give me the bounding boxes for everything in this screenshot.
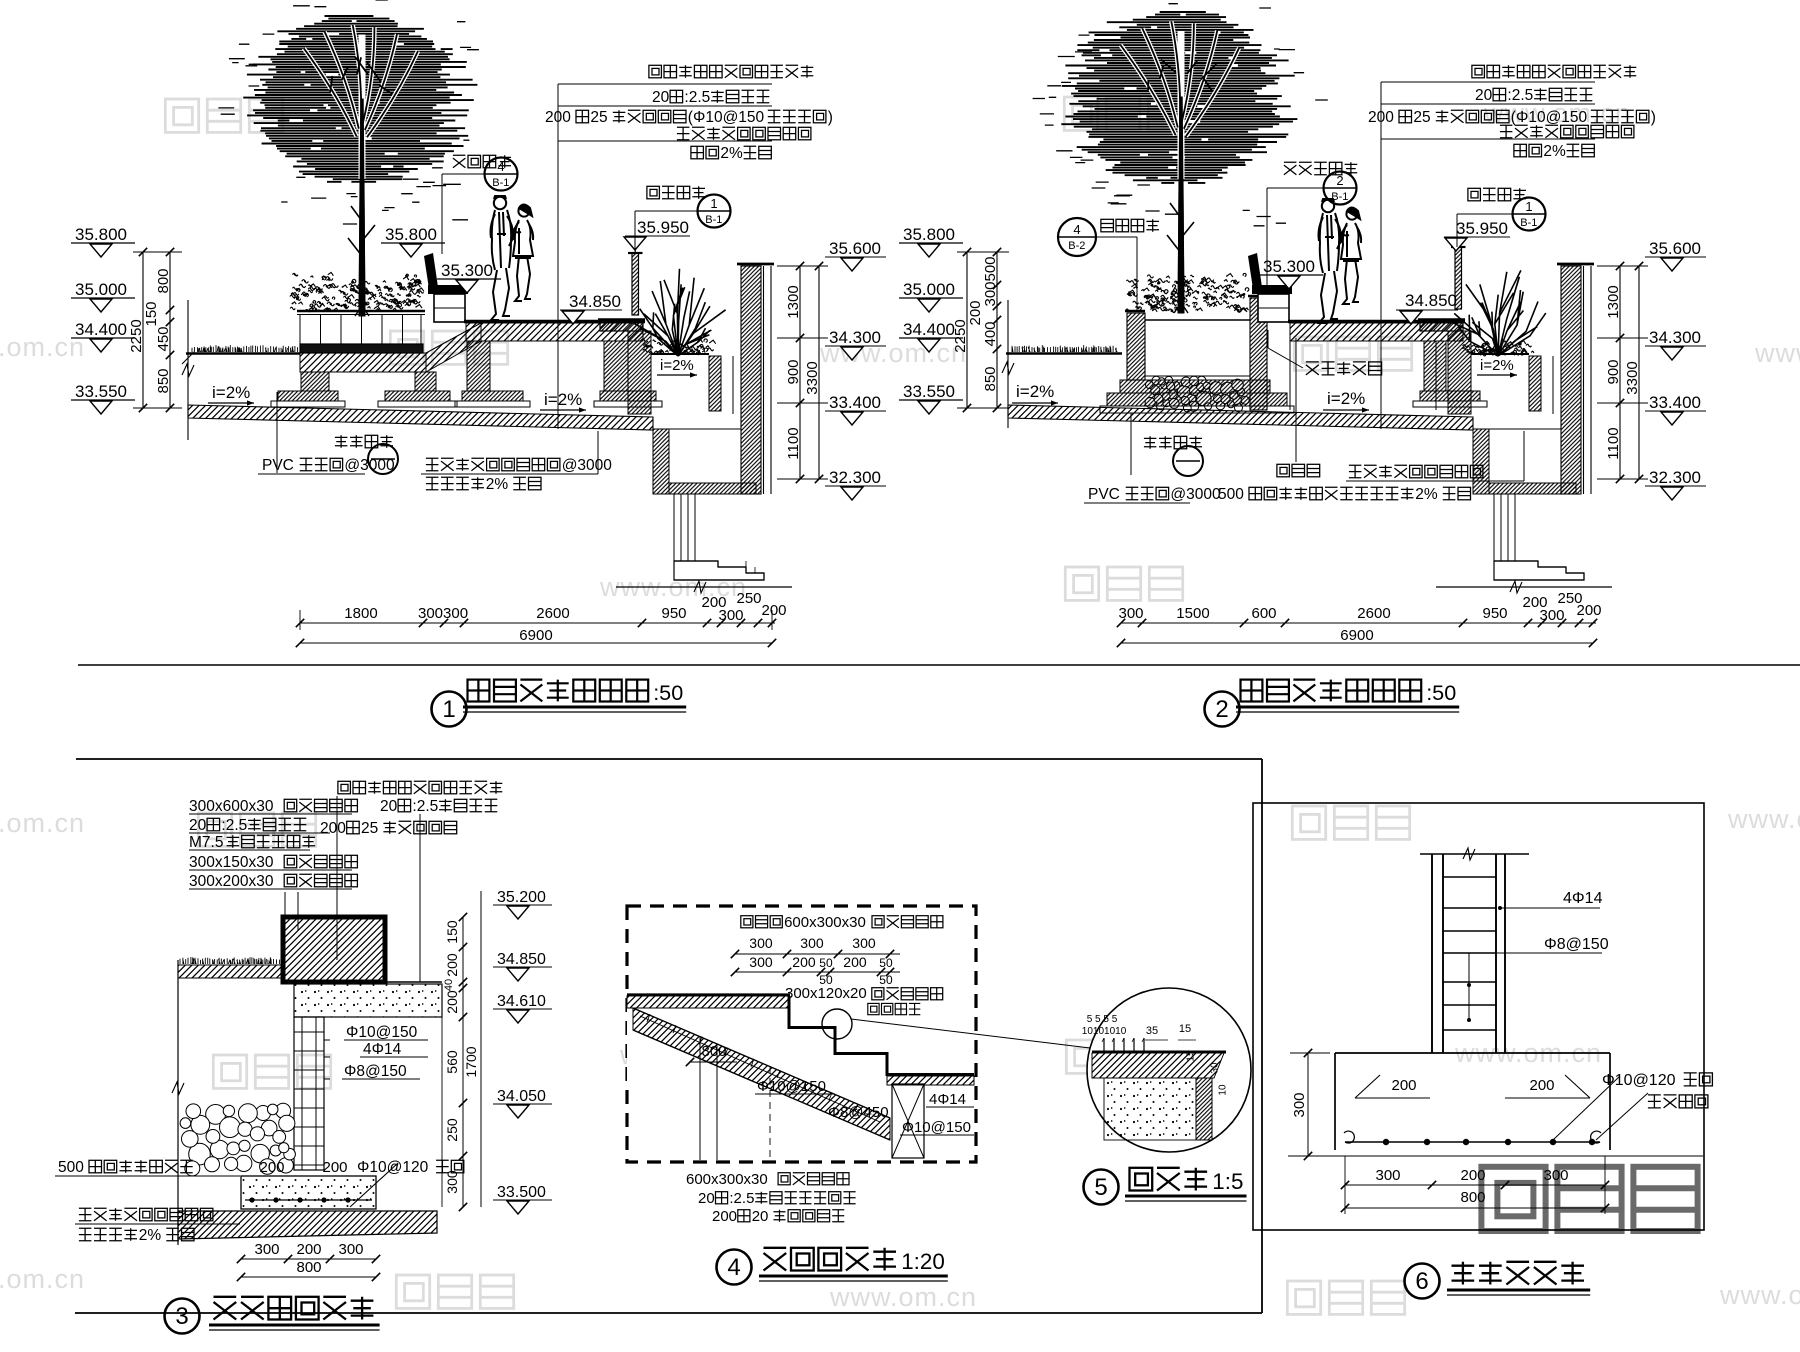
svg-text:1300: 1300: [785, 285, 802, 318]
lower steps: [674, 561, 764, 580]
bottom structural slab: [188, 405, 653, 430]
footing C: [462, 391, 523, 401]
svg-text:Φ10@150: Φ10@150: [757, 1078, 826, 1095]
planting soil label: [1277, 464, 1290, 477]
drainage cavity walls: [1289, 341, 1291, 410]
svg-text:20: 20: [189, 817, 207, 834]
svg-text:850: 850: [155, 368, 172, 393]
tree pit walls: [1125, 310, 1145, 312]
annotation text top v2: [1472, 65, 1485, 78]
drainage label: [1306, 362, 1319, 375]
dim 300 vertical: [1307, 1053, 1309, 1156]
footing A: [278, 391, 338, 401]
left ground boundary line: [187, 300, 189, 440]
detail 3 labels block: [338, 781, 351, 794]
svg-text:35.800: 35.800: [903, 225, 955, 244]
gravel drainage layer: [189, 1143, 211, 1165]
svg-text:34.300: 34.300: [829, 328, 881, 347]
detail 5 big circle: [1087, 988, 1251, 1152]
svg-text:25: 25: [361, 820, 378, 837]
right planter inner wall: [709, 356, 721, 411]
railing detail bubble: [647, 186, 660, 199]
svg-text:i=2%: i=2%: [544, 390, 582, 409]
svg-text:200: 200: [444, 990, 460, 1014]
svg-text:450: 450: [155, 326, 172, 351]
tree pit shrubs: [1126, 273, 1249, 312]
vertical dimension chain left: [142, 252, 144, 408]
svg-text:34.050: 34.050: [497, 1088, 546, 1105]
svg-text:500: 500: [1218, 486, 1244, 503]
people couple v2: [1319, 199, 1362, 323]
support wall B: [415, 372, 436, 391]
svg-text:4: 4: [1073, 222, 1080, 237]
tree pit foundation: [1120, 380, 1270, 393]
svg-text:www.om.cn: www.om.cn: [0, 808, 85, 838]
right dimension chain: [799, 266, 801, 479]
svg-text:1500: 1500: [1176, 605, 1209, 622]
svg-text:www.om.cn: www.om.cn: [829, 1282, 977, 1312]
bottom structural slab v2: [1008, 405, 1473, 430]
detail 3 title: [165, 1299, 200, 1334]
footing B: [385, 391, 450, 401]
light watermarks: [165, 99, 198, 132]
svg-text:2: 2: [1215, 696, 1228, 723]
pedestal v2: [1493, 494, 1495, 561]
svg-text:5: 5: [1094, 1174, 1107, 1201]
svg-text:200: 200: [792, 954, 816, 970]
svg-text:34.400: 34.400: [903, 320, 955, 339]
annotation text top: [649, 65, 662, 78]
svg-text:2%: 2%: [720, 145, 743, 162]
svg-text:4: 4: [497, 159, 504, 174]
svg-text:34.850: 34.850: [497, 951, 546, 968]
ground line detail6: [1288, 1155, 1703, 1157]
svg-text:50: 50: [879, 973, 893, 987]
svg-text:Φ10@120: Φ10@120: [1602, 1072, 1676, 1089]
svg-text:800: 800: [155, 268, 172, 293]
deck slab v2: [1288, 320, 1465, 323]
svg-text:35.300: 35.300: [441, 261, 493, 280]
detail 6 title: [1405, 1264, 1440, 1299]
railing post: [628, 247, 643, 315]
bottom dimension chain view1: [300, 622, 775, 624]
svg-text:3300: 3300: [804, 361, 821, 394]
foundation detail bubble: [335, 435, 348, 448]
svg-text:300: 300: [749, 954, 773, 970]
stair stringer slab: [633, 1008, 890, 1140]
svg-text:): ): [828, 109, 833, 126]
svg-text:35.950: 35.950: [637, 218, 689, 237]
grass strip v2: [1012, 345, 1117, 352]
column with X brace: [892, 1084, 924, 1158]
svg-text:): ): [1651, 109, 1656, 126]
details enclosure box: [76, 758, 1262, 760]
svg-text:@3000: @3000: [562, 457, 613, 474]
concrete slab under bench: [294, 984, 442, 1017]
svg-text:300: 300: [255, 1241, 280, 1258]
svg-text:34.400: 34.400: [75, 320, 127, 339]
stringer rebar: [640, 1016, 880, 1122]
svg-text:300: 300: [719, 607, 744, 624]
tree pit detail bubble: [1058, 218, 1096, 256]
svg-text:200: 200: [762, 602, 787, 619]
svg-text:35.000: 35.000: [903, 280, 955, 299]
ground line below: [616, 586, 792, 588]
lower box v2: [1473, 429, 1489, 494]
lower box wall: [653, 429, 669, 494]
svg-text:950: 950: [662, 605, 687, 622]
svg-text:300x150x30: 300x150x30: [189, 854, 274, 871]
svg-text:33.500: 33.500: [497, 1184, 546, 1201]
large dark watermark: [1481, 1167, 1545, 1231]
svg-text:300: 300: [1119, 605, 1144, 622]
svg-text:2%: 2%: [1415, 486, 1438, 503]
svg-text:560: 560: [444, 1050, 460, 1074]
left soil strip: [178, 965, 283, 978]
svg-text:20: 20: [698, 1190, 715, 1207]
material annotation leader: [557, 84, 559, 429]
svg-text:(Φ10@150: (Φ10@150: [1511, 109, 1588, 126]
detail5 concrete below: [1104, 1078, 1196, 1140]
svg-text:25: 25: [1413, 109, 1430, 126]
svg-text:Φ10@150: Φ10@150: [902, 1119, 971, 1136]
svg-text:800: 800: [1461, 1189, 1486, 1206]
svg-text:300x600x30: 300x600x30: [189, 798, 274, 815]
svg-text:300300: 300300: [418, 605, 468, 622]
detail 4 dashed box: [627, 906, 976, 1162]
annotation leader v2: [1380, 82, 1382, 429]
svg-text:2600: 2600: [536, 605, 569, 622]
people couple: [491, 196, 534, 320]
svg-text:1100: 1100: [1605, 427, 1622, 459]
right planter curb: [600, 320, 643, 331]
svg-text:300: 300: [339, 1241, 364, 1258]
svg-text:200: 200: [260, 1159, 285, 1176]
svg-text:1100: 1100: [785, 427, 802, 459]
svg-text:10101010: 10101010: [1082, 1026, 1127, 1037]
steps profile: [627, 993, 790, 996]
svg-text:200: 200: [297, 1241, 322, 1258]
svg-text:www.om.cn: www.om.cn: [1719, 1280, 1800, 1310]
support wall D: [604, 341, 628, 391]
footing D: [600, 391, 656, 401]
svg-text:1300: 1300: [1605, 285, 1622, 318]
wall ladder reinforcement: [294, 1017, 324, 1170]
svg-text:300: 300: [1544, 1167, 1569, 1184]
svg-text:6900: 6900: [1340, 627, 1373, 644]
svg-text:300: 300: [982, 281, 999, 306]
steps detail bubble: [453, 155, 466, 168]
svg-text::2.5: :2.5: [1507, 87, 1533, 104]
bench detail bubble v2: [1284, 162, 1297, 175]
svg-text:32.300: 32.300: [829, 468, 881, 487]
svg-text:20: 20: [652, 89, 670, 106]
right retaining wall v2: [1561, 266, 1581, 494]
cavity boundary: [324, 1099, 442, 1101]
detail5 tick marks: [1103, 1038, 1105, 1052]
footing outline: [1335, 1052, 1610, 1054]
svg-text:4: 4: [727, 1254, 740, 1281]
svg-text:www.om.cn: www.om.cn: [0, 332, 85, 362]
svg-text:i=2%: i=2%: [660, 357, 694, 374]
svg-text:B-2: B-2: [1068, 240, 1085, 252]
svg-text:6900: 6900: [519, 627, 552, 644]
svg-text:33.400: 33.400: [829, 393, 881, 412]
detail5 slab band: [1092, 1051, 1226, 1054]
svg-text:15: 15: [1186, 1050, 1197, 1062]
svg-text:35.600: 35.600: [829, 239, 881, 258]
separator line: [78, 664, 1800, 666]
svg-text:www.om.cn: www.om.cn: [1727, 804, 1800, 834]
planter box with tiles: [297, 310, 425, 312]
svg-text:i=2%: i=2%: [1016, 382, 1054, 401]
svg-text:i=2%: i=2%: [1480, 357, 1514, 374]
svg-text:200: 200: [545, 109, 571, 126]
right planter soil and plant v2: [1471, 353, 1529, 355]
svg-text:35.600: 35.600: [1649, 239, 1701, 258]
support wall A: [301, 372, 329, 391]
svg-text:Φ8@450: Φ8@450: [828, 1104, 889, 1121]
svg-text:20: 20: [752, 1208, 769, 1225]
svg-text:10: 10: [1218, 1084, 1229, 1096]
svg-text:200: 200: [320, 820, 346, 837]
svg-text:1: 1: [710, 196, 717, 211]
svg-text::2.5: :2.5: [221, 817, 247, 834]
svg-text:800: 800: [297, 1259, 322, 1276]
svg-text:400: 400: [982, 321, 999, 346]
svg-text:@3000: @3000: [344, 457, 395, 474]
svg-text:950: 950: [1483, 605, 1508, 622]
svg-text:200: 200: [323, 1159, 348, 1176]
footing detail3: [241, 1176, 376, 1209]
svg-text::50: :50: [1426, 680, 1456, 705]
svg-text:PVC: PVC: [1088, 486, 1120, 503]
bench block detail: [283, 917, 385, 982]
support wall C: [467, 341, 490, 391]
svg-text:300: 300: [800, 935, 824, 951]
detail4 dim rows: [735, 953, 900, 955]
railing detail bubble v2: [1468, 188, 1481, 201]
right elevation chain detail3: [462, 917, 464, 1207]
svg-text:i=2%: i=2%: [1327, 389, 1365, 408]
grass strip left: [192, 345, 298, 352]
support walls under steps: [699, 1037, 701, 1160]
svg-text:33.550: 33.550: [75, 382, 127, 401]
svg-text:200: 200: [1368, 109, 1394, 126]
foundation detail bubble v2: [1144, 436, 1157, 449]
svg-text:35.300: 35.300: [1263, 257, 1315, 276]
svg-text:Φ10@150: Φ10@150: [346, 1024, 418, 1041]
svg-text:B-1: B-1: [705, 214, 722, 226]
svg-text:Φ8@150: Φ8@150: [1544, 936, 1609, 953]
svg-text:200: 200: [843, 954, 867, 970]
right planter soil and plant: [651, 353, 709, 355]
lower box floor: [669, 483, 756, 494]
svg-text:3300: 3300: [1624, 361, 1641, 394]
detail5 wall strip: [1196, 1078, 1212, 1140]
svg-text:www.om.cn: www.om.cn: [0, 1264, 85, 1294]
deck slab: [464, 320, 645, 323]
footing chamfer marks: [1355, 1075, 1430, 1098]
svg-text:200: 200: [1577, 602, 1602, 619]
svg-text:20: 20: [1475, 87, 1493, 104]
svg-text:800: 800: [702, 1043, 727, 1060]
svg-text:(Φ10@150: (Φ10@150: [688, 109, 765, 126]
detail 5 title: [1084, 1170, 1119, 1205]
svg-text:250: 250: [737, 590, 762, 607]
railing post v2: [1451, 241, 1466, 309]
svg-text:33.550: 33.550: [903, 382, 955, 401]
svg-text::2.5: :2.5: [729, 1190, 754, 1207]
svg-text:300: 300: [444, 1170, 460, 1194]
detail 4 title: [717, 1250, 752, 1285]
svg-text:34.610: 34.610: [497, 993, 546, 1010]
tree pit gravel: [1177, 386, 1190, 399]
svg-text:2%: 2%: [486, 476, 509, 493]
lower steps v2: [1494, 561, 1584, 580]
svg-text:15: 15: [1179, 1023, 1191, 1035]
svg-text:35: 35: [1146, 1025, 1158, 1037]
bottom slab detail3: [178, 1211, 437, 1239]
bottom dimension chain view2: [1121, 622, 1596, 624]
svg-text:250: 250: [444, 1118, 460, 1142]
svg-text:3: 3: [175, 1303, 188, 1330]
svg-text:40: 40: [443, 979, 455, 991]
detail 6 box: [1253, 803, 1704, 1230]
svg-text:200: 200: [1530, 1077, 1555, 1094]
bench seat 2: [1248, 253, 1292, 322]
svg-text:200: 200: [444, 953, 460, 977]
bench seat 1: [424, 253, 468, 322]
detail4 top label: [741, 916, 753, 928]
right retaining wall: [741, 266, 761, 494]
svg-text:35.800: 35.800: [385, 225, 437, 244]
svg-text:200: 200: [1461, 1167, 1486, 1184]
svg-text:500: 500: [58, 1159, 84, 1176]
svg-text:34.850: 34.850: [569, 292, 621, 311]
svg-text:300: 300: [1376, 1167, 1401, 1184]
svg-text:900: 900: [785, 359, 802, 384]
svg-text:1: 1: [1525, 199, 1532, 214]
svg-text:50: 50: [819, 956, 833, 970]
svg-text:www.om.cn: www.om.cn: [1754, 338, 1800, 368]
svg-text::2.5: :2.5: [684, 89, 710, 106]
right dimension chain v2: [1619, 266, 1621, 479]
svg-text:35.200: 35.200: [497, 889, 546, 906]
svg-text:20: 20: [380, 798, 398, 815]
svg-text:4Φ14: 4Φ14: [363, 1041, 402, 1058]
svg-text:300: 300: [1291, 1092, 1308, 1117]
vertical dimension chain left: [966, 252, 968, 408]
left ground boundary line v2: [1007, 300, 1009, 428]
svg-text:600: 600: [1252, 605, 1277, 622]
svg-text:35.950: 35.950: [1456, 219, 1508, 238]
svg-text:200: 200: [712, 1208, 737, 1225]
svg-text::2.5: :2.5: [412, 798, 438, 815]
right planter wall left: [628, 331, 651, 414]
svg-text:34.850: 34.850: [1405, 291, 1457, 310]
svg-text:M7.5: M7.5: [189, 834, 223, 851]
svg-text:1: 1: [442, 696, 455, 723]
view 1 title: [432, 692, 467, 727]
svg-text:50: 50: [879, 956, 893, 970]
slab wedge transition: [426, 323, 481, 372]
svg-text:900: 900: [1605, 359, 1622, 384]
svg-text:1:5: 1:5: [1212, 1169, 1243, 1194]
svg-text:1800: 1800: [344, 605, 377, 622]
svg-text:6: 6: [1415, 1268, 1428, 1295]
svg-text:850: 850: [982, 366, 999, 391]
svg-text:150: 150: [143, 301, 160, 326]
footing under cavity: [1420, 391, 1480, 401]
ground line below v2: [1436, 586, 1612, 588]
pedestal below: [673, 494, 675, 561]
pier reinforcement: [1431, 854, 1433, 1053]
svg-text:300: 300: [852, 935, 876, 951]
roof slab label: [426, 458, 439, 471]
svg-text:2600: 2600: [1357, 605, 1390, 622]
svg-text:4Φ14: 4Φ14: [929, 1091, 966, 1108]
svg-text:4Φ14: 4Φ14: [1563, 890, 1603, 907]
svg-text:33.400: 33.400: [1649, 393, 1701, 412]
svg-text:35.800: 35.800: [75, 225, 127, 244]
view 2 title: [1205, 692, 1240, 727]
svg-text::50: :50: [653, 680, 683, 705]
svg-text:35.000: 35.000: [75, 280, 127, 299]
svg-text:B-1: B-1: [1331, 191, 1348, 203]
svg-text:32.300: 32.300: [1649, 468, 1701, 487]
svg-text:150: 150: [444, 920, 460, 944]
svg-text:B-1: B-1: [492, 177, 509, 189]
planter shrubs: [290, 272, 424, 311]
svg-text:600x300x30: 600x300x30: [784, 914, 866, 931]
svg-text:2%: 2%: [139, 1227, 162, 1244]
svg-text:1:20: 1:20: [901, 1249, 945, 1274]
svg-text:PVC: PVC: [262, 457, 294, 474]
svg-text:Φ8@150: Φ8@150: [344, 1063, 407, 1080]
svg-text:B-1: B-1: [1520, 217, 1537, 229]
section view 2: tree: [1061, 12, 1297, 183]
right planter curb v2: [1420, 320, 1463, 331]
svg-text:i=2%: i=2%: [212, 383, 250, 402]
detail circle marker on step: [822, 1009, 852, 1039]
slab under planter: [300, 353, 426, 372]
section view 1: tree: [243, 16, 477, 182]
svg-text:300x200x30: 300x200x30: [189, 873, 274, 890]
svg-text:500: 500: [982, 256, 999, 281]
footing bottom rebar: [1345, 1141, 1600, 1143]
svg-text:300: 300: [1540, 607, 1565, 624]
svg-text:300x120x20: 300x120x20: [785, 985, 867, 1002]
svg-text:30: 30: [1210, 1062, 1221, 1074]
svg-text:2%: 2%: [1543, 143, 1566, 160]
svg-text:600x300x30: 600x300x30: [686, 1171, 768, 1188]
svg-text:25: 25: [590, 109, 607, 126]
svg-text:300: 300: [749, 935, 773, 951]
roof slab label v2: [1349, 465, 1362, 478]
leader lines from labels: [284, 892, 286, 915]
svg-text:34.300: 34.300: [1649, 328, 1701, 347]
svg-text:1700: 1700: [463, 1046, 479, 1077]
svg-text:2: 2: [1336, 173, 1343, 188]
svg-text:5 5 5 5: 5 5 5 5: [1087, 1014, 1118, 1025]
svg-text:200: 200: [1392, 1077, 1417, 1094]
svg-text:@3000: @3000: [1170, 486, 1221, 503]
